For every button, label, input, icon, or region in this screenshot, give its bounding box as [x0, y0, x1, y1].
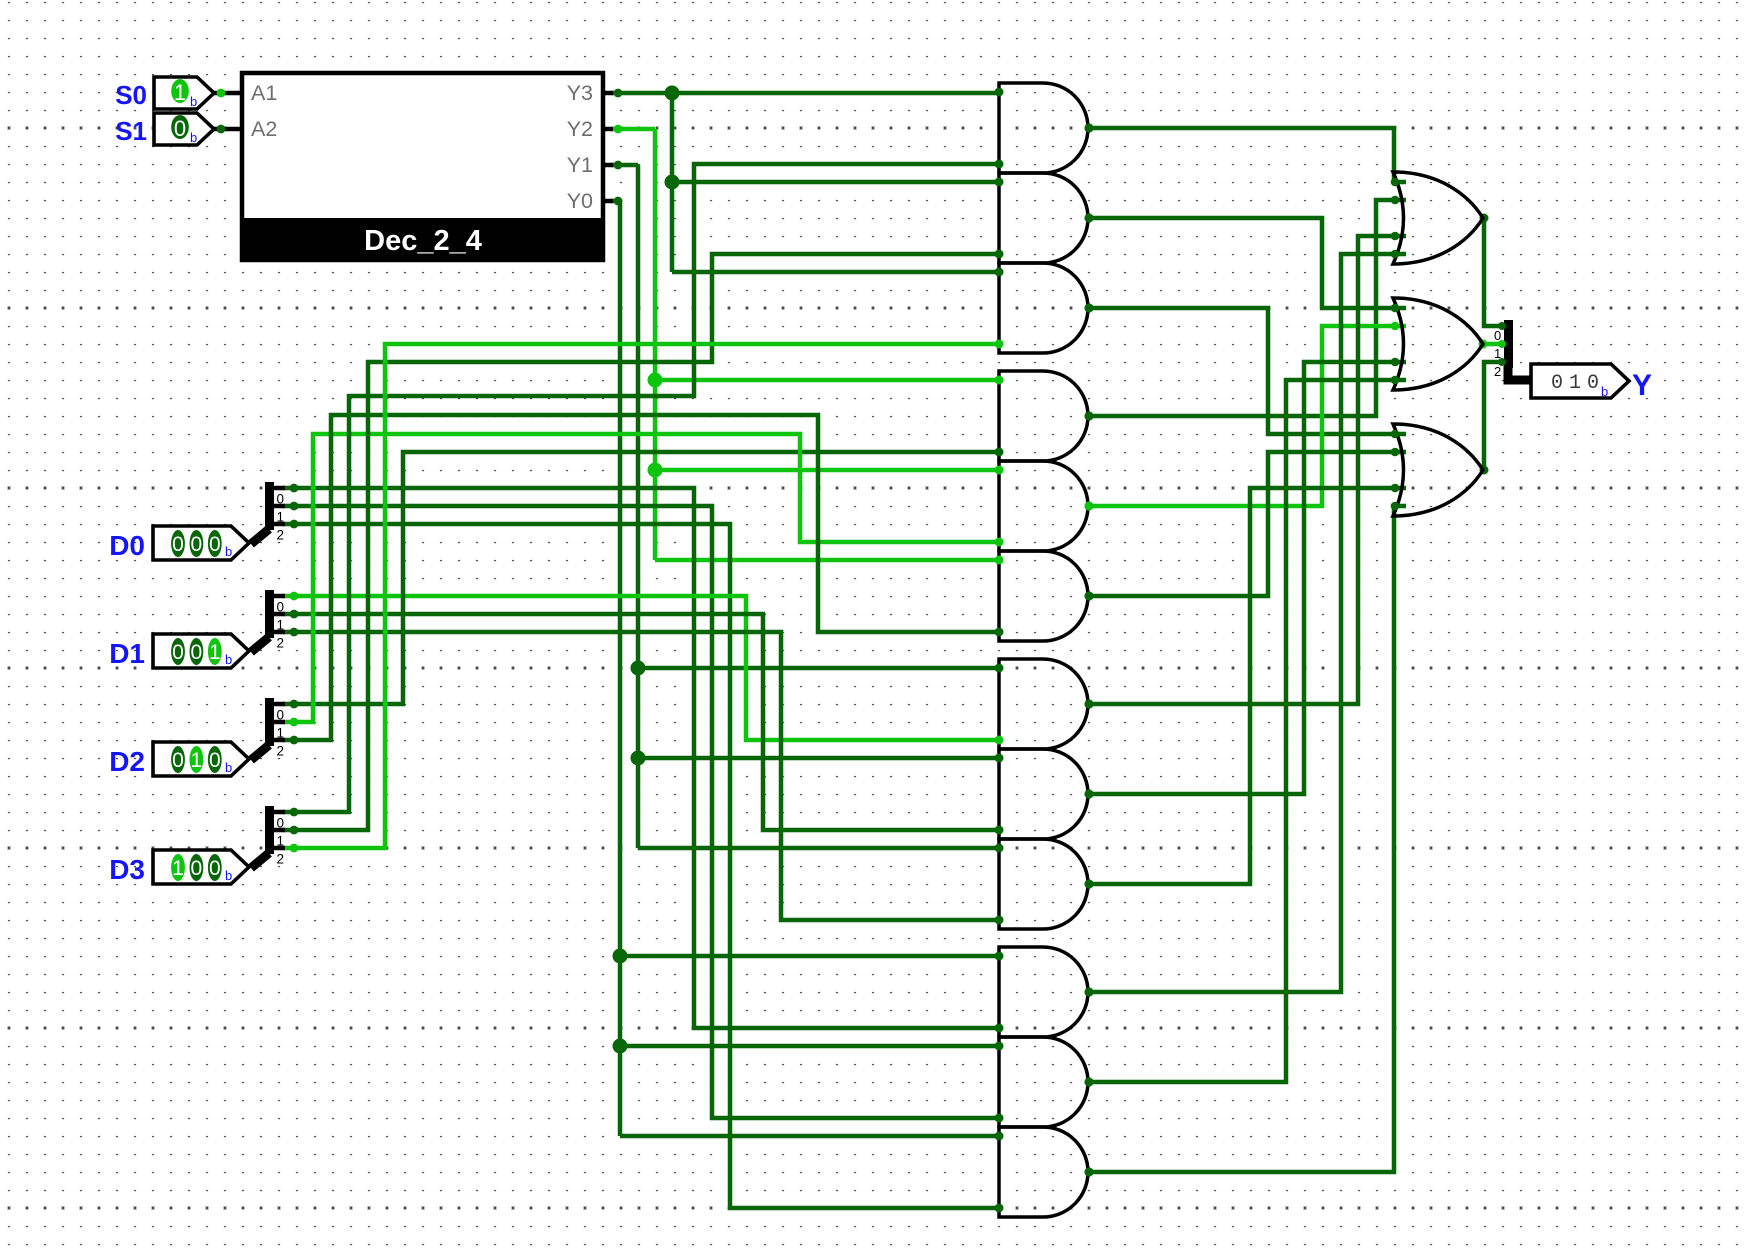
- pin D0 splitter out0: [274, 486, 285, 491]
- node junction Y1a: [631, 661, 646, 676]
- splitter SP_D3: [251, 806, 298, 868]
- pin D3 splitter out1: [274, 828, 285, 833]
- pin D3 splitter out2: [274, 846, 285, 851]
- svg-text:A1: A1: [251, 81, 277, 105]
- svg-text:Y0: Y0: [567, 189, 593, 213]
- wire net U8.out to OR2.in3: [1088, 362, 1406, 794]
- wire net Y3 to U2.in1: [672, 180, 999, 185]
- svg-text:0: 0: [174, 116, 186, 141]
- svg-text:0: 0: [191, 533, 203, 556]
- svg-text:0: 0: [191, 641, 203, 664]
- pin D1 splitter out0: [274, 594, 285, 599]
- wire net Y0 to U11.in1: [620, 1044, 999, 1049]
- svg-text:b: b: [190, 130, 197, 145]
- node node OR2.out: [1479, 340, 1488, 349]
- splitter SP_D2: [251, 698, 298, 760]
- AND gate U3: [995, 263, 1094, 353]
- wire net U10.out to OR1.in4: [1088, 254, 1406, 992]
- wire net Y1 drop: [636, 165, 641, 848]
- svg-text:0: 0: [1587, 372, 1599, 395]
- wire net U11.out to OR2.in4: [1088, 380, 1406, 1082]
- wire net Y2 drop: [653, 129, 658, 560]
- svg-text:2: 2: [277, 852, 285, 867]
- AND gate U10: [995, 947, 1094, 1037]
- svg-text:Y2: Y2: [567, 117, 593, 141]
- wire net D1.1 to U8.in2: [283, 614, 999, 830]
- node node OR1.out: [1480, 214, 1489, 223]
- wire net Y2 to U6.in1: [655, 558, 999, 563]
- splitter SP_D1: [251, 590, 298, 652]
- svg-text:S0: S0: [115, 80, 147, 110]
- node junction Y0a: [613, 949, 628, 964]
- OR gate OR2: [1391, 298, 1483, 390]
- AND gate U4: [995, 371, 1094, 461]
- AND gate U9: [995, 839, 1094, 929]
- wire net D3.1 to U2.in2: [283, 254, 999, 830]
- input pin S1: [115, 113, 242, 146]
- wire net D0.1 to U11.in2: [283, 506, 999, 1118]
- wire net D2.2 to U6.in2: [283, 415, 999, 740]
- wire net D2.1 to U5.in2: [283, 434, 999, 722]
- svg-text:2: 2: [277, 636, 285, 651]
- wire net U5.out to OR2.in2: [1088, 326, 1406, 506]
- svg-text:1: 1: [191, 749, 203, 772]
- svg-text:0: 0: [172, 749, 184, 772]
- wire net U4.out to OR1.in2: [1088, 200, 1406, 416]
- wire net Y0 row: [611, 199, 620, 204]
- wire net Y1 to U9.in1: [638, 846, 999, 851]
- pin D3 splitter out0: [274, 810, 285, 815]
- wire net Y1 to U8.in1: [638, 756, 999, 761]
- pin D0 splitter out2: [274, 522, 285, 527]
- svg-text:b: b: [190, 94, 197, 109]
- svg-text:0: 0: [172, 533, 184, 556]
- OR gate OR3: [1391, 424, 1483, 516]
- wire net Y0 drop: [618, 201, 623, 1136]
- wire net D0.2 to U12.in2: [283, 524, 999, 1208]
- svg-text:D0: D0: [109, 530, 145, 561]
- svg-text:D3: D3: [109, 854, 145, 885]
- pin D2 splitter out2: [274, 738, 285, 743]
- node junction Y3b: [665, 175, 680, 190]
- svg-text:0: 0: [1551, 372, 1563, 395]
- node junction Y0b: [613, 1039, 628, 1054]
- wire net D3.2 to U3.in2: [283, 344, 999, 848]
- wire net D1.2 to U9.in2: [283, 632, 999, 920]
- node junction Y1b: [631, 751, 646, 766]
- svg-text:2: 2: [277, 528, 285, 543]
- wire net Y1 to U7.in1: [638, 666, 999, 671]
- wire net D1.0 to U7.in2: [283, 596, 999, 740]
- wire net D0.0 to U10.in2: [283, 488, 999, 1028]
- wire net U6.out to OR3.in2: [1088, 452, 1406, 596]
- wire net Y3 drop: [670, 93, 675, 272]
- wire net Y3 to U3.in1: [672, 270, 999, 275]
- wire net OR2.out to SP2.1: [1482, 342, 1504, 347]
- input pin S0: [115, 77, 242, 110]
- AND gate U7: [995, 659, 1094, 749]
- svg-text:2: 2: [1494, 364, 1501, 379]
- AND gate U8: [995, 749, 1094, 839]
- svg-text:D2: D2: [109, 746, 145, 777]
- node junction Y2b: [648, 463, 663, 478]
- pin D2 splitter out0: [274, 702, 285, 707]
- svg-text:A2: A2: [251, 117, 277, 141]
- wire net U1.out to OR1.in1: [1088, 128, 1406, 182]
- svg-text:0: 0: [209, 749, 221, 772]
- wire net Y1 row: [611, 163, 638, 168]
- wire net D2.0 to U4.in2: [283, 452, 999, 704]
- node node OR3.out: [1480, 466, 1489, 475]
- wire net Y2 row: [611, 127, 655, 132]
- wire net OR1.out to SP2.0: [1483, 218, 1504, 326]
- input pin D1: [109, 634, 249, 669]
- wire net OR3.out to SP2.2: [1483, 362, 1504, 470]
- AND gate U12: [995, 1127, 1094, 1217]
- svg-text:D1: D1: [109, 638, 145, 669]
- AND gate U11: [995, 1037, 1094, 1127]
- input pin D0: [109, 526, 249, 561]
- pin D1 splitter out1: [274, 612, 285, 617]
- wire net Y2 to U5.in1: [655, 468, 999, 473]
- pin D1 splitter out2: [274, 630, 285, 635]
- input pin D2: [109, 742, 249, 777]
- svg-text:Y3: Y3: [567, 81, 593, 105]
- wire net Y2 to U4.in1: [655, 378, 999, 383]
- svg-text:b: b: [225, 652, 232, 667]
- node junction Y3a: [665, 86, 680, 101]
- splitter SP2 merger: [1494, 320, 1530, 380]
- wire net Y0 to U12.in1: [620, 1134, 999, 1139]
- OR gate OR1: [1391, 172, 1483, 264]
- svg-text:b: b: [225, 868, 232, 883]
- svg-text:b: b: [225, 544, 232, 559]
- svg-text:0: 0: [209, 533, 221, 556]
- pin D0 splitter out1: [274, 504, 285, 509]
- svg-text:1: 1: [1569, 372, 1581, 395]
- svg-text:2: 2: [277, 744, 285, 759]
- svg-text:S1: S1: [115, 116, 147, 146]
- wire net Y3 row: [611, 91, 999, 96]
- svg-text:1: 1: [209, 641, 221, 664]
- wire net U12.out to OR3.in4: [1088, 506, 1406, 1172]
- svg-text:Dec_2_4: Dec_2_4: [364, 225, 482, 257]
- AND gate U6: [995, 551, 1094, 641]
- pin D2 splitter out1: [274, 720, 285, 725]
- svg-text:0: 0: [191, 857, 203, 880]
- svg-text:0: 0: [172, 641, 184, 664]
- wire net D3.0 to U1.in2: [283, 164, 999, 812]
- svg-text:1: 1: [174, 80, 186, 105]
- output pin Y: [1531, 364, 1652, 402]
- wire net U7.out to OR1.in3: [1088, 236, 1406, 704]
- AND gate U2: [995, 173, 1094, 263]
- wire net U2.out to OR2.in1: [1088, 218, 1406, 308]
- svg-text:Y: Y: [1632, 369, 1652, 402]
- svg-text:1: 1: [172, 857, 184, 880]
- svg-text:Y1: Y1: [567, 153, 593, 177]
- svg-text:0: 0: [209, 857, 221, 880]
- svg-text:b: b: [225, 760, 232, 775]
- splitter SP_D0: [251, 482, 298, 544]
- AND gate U1: [995, 83, 1094, 173]
- decoder U0 Dec_2_4: [241, 73, 622, 260]
- wire net Y0 to U10.in1: [620, 954, 999, 959]
- wire net U9.out to OR3.in3: [1088, 488, 1406, 884]
- svg-text:b: b: [1601, 384, 1608, 399]
- input pin D3: [109, 850, 249, 885]
- AND gate U5: [995, 461, 1094, 551]
- node junction Y2a: [648, 373, 663, 388]
- wire net U3.out to OR3.in1: [1088, 308, 1406, 434]
